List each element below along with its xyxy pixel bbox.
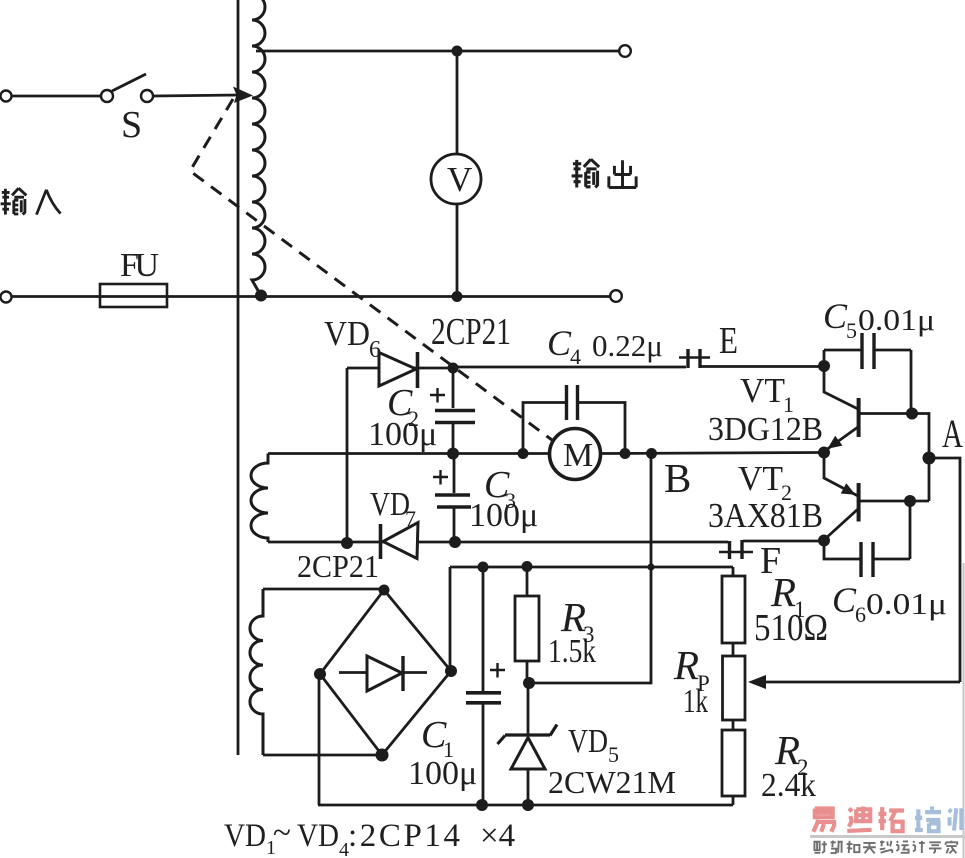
svg-text:0.01μ: 0.01μ <box>866 586 947 621</box>
svg-text:510Ω: 510Ω <box>754 607 828 649</box>
svg-text:VD: VD <box>324 314 370 353</box>
svg-text:M: M <box>563 437 593 474</box>
svg-text:5: 5 <box>846 318 857 343</box>
svg-text:6: 6 <box>855 602 866 627</box>
svg-text:VD: VD <box>370 486 410 523</box>
svg-text:1.5k: 1.5k <box>548 633 596 670</box>
svg-text:100μ: 100μ <box>368 416 437 453</box>
svg-text:0.01μ: 0.01μ <box>858 302 935 337</box>
svg-text:×4: ×4 <box>480 818 515 854</box>
svg-text:2.4k: 2.4k <box>761 767 816 804</box>
svg-text:7: 7 <box>405 506 416 531</box>
svg-text:0.22μ: 0.22μ <box>592 328 663 363</box>
svg-text:S: S <box>121 104 142 146</box>
svg-text:FU: FU <box>120 247 159 284</box>
svg-text:VT: VT <box>738 459 783 498</box>
svg-text:V: V <box>447 160 472 199</box>
svg-text:3DG12B: 3DG12B <box>708 411 823 448</box>
svg-text:B: B <box>664 455 691 501</box>
svg-text:2CW21M: 2CW21M <box>548 764 676 800</box>
svg-text:C: C <box>547 323 572 363</box>
svg-text:VD: VD <box>568 723 608 760</box>
svg-text:R: R <box>673 642 699 688</box>
svg-text:6: 6 <box>369 337 381 363</box>
svg-text:4: 4 <box>570 344 581 369</box>
svg-text:C: C <box>823 296 848 336</box>
svg-text:3AX81B: 3AX81B <box>708 496 823 535</box>
svg-text:VT: VT <box>740 371 785 410</box>
svg-text:VD: VD <box>224 818 266 854</box>
svg-text:A: A <box>942 411 963 456</box>
svg-text:C: C <box>832 580 857 620</box>
svg-text::2CP14: :2CP14 <box>348 818 460 854</box>
svg-text:100μ: 100μ <box>469 497 538 534</box>
svg-text:2CP21: 2CP21 <box>297 548 379 584</box>
svg-text:~: ~ <box>273 815 291 851</box>
svg-text:1k: 1k <box>683 683 708 720</box>
svg-text:E: E <box>719 320 738 362</box>
svg-text:100μ: 100μ <box>408 755 477 792</box>
svg-text:VD: VD <box>297 818 339 854</box>
svg-text:2CP21: 2CP21 <box>431 311 511 353</box>
